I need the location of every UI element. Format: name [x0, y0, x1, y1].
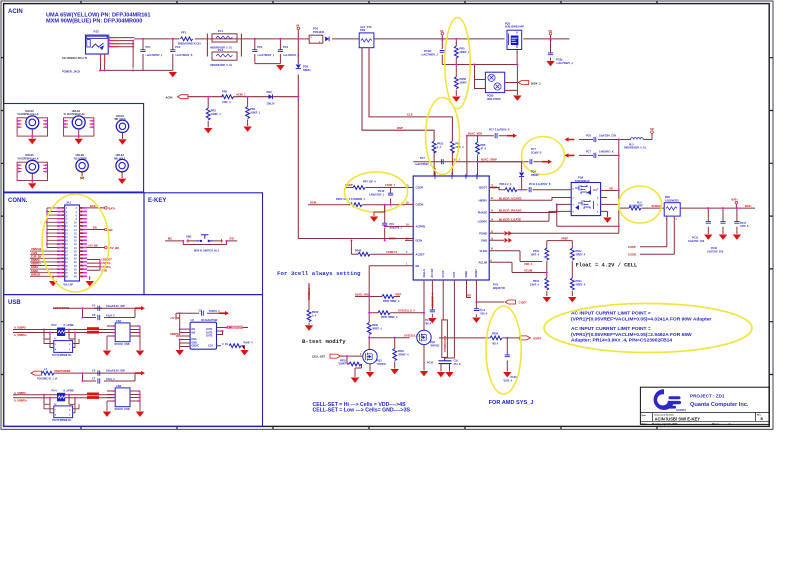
net arrow [135, 306, 145, 310]
resistor box PR9 [359, 25, 374, 48]
svg-text:*H-SCREW-Hole-LK: *H-SCREW-Hole-LK [17, 158, 39, 160]
svg-text:of: of [728, 423, 730, 426]
switch SW1 [168, 235, 234, 253]
svg-text:+5V_BK: +5V_BK [170, 317, 180, 320]
wire VREF rail [547, 241, 573, 249]
svg-text:A_USBP2+: A_USBP2+ [14, 334, 28, 337]
svg-text:STACK_USB: STACK_USB [115, 408, 130, 411]
net arrow [135, 371, 145, 375]
svg-text:CUR_SK: CUR_SK [31, 255, 41, 258]
capacitor PC2 [170, 39, 193, 71]
svg-text:VLDO: VLDO [480, 249, 487, 253]
IC power switch U3 [176, 318, 248, 349]
ground [704, 235, 712, 240]
svg-text:PHASE: PHASE [478, 211, 487, 215]
capacitor PC16 [720, 208, 725, 234]
ground [543, 297, 551, 302]
svg-text:470P_S: 470P_S [740, 225, 749, 228]
svg-text:47_4: 47_4 [481, 147, 487, 150]
svg-text:EN: EN [416, 264, 420, 268]
connector outer pin digits [57, 208, 84, 278]
battery connector section [30, 194, 119, 292]
svg-text:2_4: 2_4 [437, 146, 442, 149]
wire jack pins [108, 38, 118, 47]
svg-text:IOVRT: IOVRT [533, 337, 542, 341]
svg-text:VR: VR [548, 29, 552, 33]
e-key switch section [165, 235, 237, 253]
USB section box [4, 295, 263, 427]
common mode filter U? [44, 338, 79, 357]
ground [305, 325, 313, 330]
resistor PR20 3cell [307, 283, 319, 325]
svg-text:BLKCR_LGATE: BLKCR_LGATE [499, 218, 521, 222]
resistor PR3 [206, 97, 221, 128]
resistor PR11 [530, 248, 548, 278]
wire OSP [362, 48, 434, 141]
wire CSOP sense down [640, 216, 674, 254]
sheet inner border [4, 4, 770, 427]
svg-text:*88_4: *88_4 [492, 342, 499, 345]
svg-text:CSON: CSON [416, 203, 424, 207]
svg-text:OC/GACPSW: OC/GACPSW [201, 318, 218, 322]
svg-text:STACK_USB: STACK_USB [115, 343, 130, 346]
ground [719, 235, 727, 240]
svg-text:VCCP: VCCP [442, 270, 445, 277]
node +5V_BK [88, 243, 119, 250]
port ACIN [178, 95, 189, 99]
svg-text:FDS6986AS: FDS6986AS [575, 179, 590, 183]
wire conn right nets [87, 208, 105, 280]
svg-text:*8REF_4: *8REF_4 [576, 283, 586, 286]
svg-text:VREF: VREF [465, 270, 468, 277]
wire cells row [369, 337, 489, 339]
EN 3cell network row1 [355, 293, 402, 303]
capacitor PC4 [255, 39, 300, 64]
wire VA vertical [298, 30, 413, 239]
resistor PR31 [338, 355, 362, 368]
ground [472, 318, 480, 323]
svg-text:200KF_J: 200KF_J [460, 51, 471, 54]
wire battery out [680, 204, 755, 208]
svg-text:47uH_4: 47uH_4 [106, 378, 115, 381]
EN branch [369, 266, 405, 297]
svg-text:VA: VA [440, 29, 444, 33]
svg-text:PD1: PD1 [313, 27, 319, 31]
svg-text:10uF/25V_C06: 10uF/25V_C06 [688, 240, 705, 243]
resistor PR5 divider top [454, 39, 470, 58]
svg-text:C2: C2 [199, 309, 203, 313]
svg-text:ACDR_2: ACDR_2 [490, 187, 501, 190]
inductor PL3 [624, 134, 652, 150]
USB section [13, 304, 253, 423]
BOOT row [490, 183, 571, 192]
svg-text:C-DET: C-DET [519, 301, 528, 305]
ground [136, 351, 144, 356]
svg-text:PD3: PD3 [267, 90, 273, 94]
svg-text:U: U [55, 403, 57, 406]
capacitor PC103 [421, 50, 445, 65]
ACIN power entry chain [62, 18, 573, 239]
net arrow [542, 160, 552, 164]
svg-text:47uH_4: 47uH_4 [106, 314, 115, 317]
svg-text:HIDRV: HIDRV [479, 198, 488, 202]
svg-text:10KF_4: 10KF_4 [530, 253, 539, 256]
svg-text:B-test modify: B-test modify [302, 338, 346, 345]
diode PD3 [267, 90, 275, 106]
svg-text:10KF_4: 10KF_4 [222, 101, 231, 104]
svg-text:HOLE1: HOLE1 [116, 115, 125, 118]
ACLIM net wire [497, 262, 547, 272]
svg-text:PU2: PU2 [52, 323, 58, 327]
ground [243, 127, 251, 132]
svg-text:PC18: PC18 [427, 362, 434, 365]
svg-text:PC4: PC4 [283, 45, 289, 49]
svg-text:ACIN /USB/ SW/ E-KEY: ACIN /USB/ SW/ E-KEY [655, 416, 701, 421]
power jack PJ2 [62, 30, 108, 74]
svg-text:USBP2-: USBP2- [31, 259, 40, 262]
svg-text:*8REF_4: *8REF_4 [372, 327, 382, 330]
border tick marks [1, 1, 773, 429]
svg-text:Sheet: Sheet [712, 423, 719, 426]
resistor PR13 [530, 278, 549, 296]
svg-text:8_uPDB: 8_uPDB [64, 388, 74, 392]
svg-text:OUT3: OUT3 [206, 335, 213, 338]
svg-text:PC3: PC3 [257, 45, 263, 49]
svg-text:0.02/2W3Z0: 0.02/2W3Z0 [665, 199, 679, 202]
svg-text:ACDET 2: ACDET 2 [386, 250, 398, 254]
svg-text:H6S0RB-B2R_0_GL: H6S0RB-B2R_0_GL [624, 147, 647, 150]
battery output chain [565, 127, 756, 256]
port usb2 in [31, 371, 42, 375]
svg-text:DCIN: DCIN [416, 239, 423, 243]
svg-text:DCIN: DCIN [389, 236, 396, 240]
svg-text:Monday, April 24, 2006: Monday, April 24, 2006 [652, 423, 678, 426]
svg-text:GND1: GND1 [31, 266, 39, 269]
svg-text:/.uAC7W02V_S: /.uAC7W02V_S [175, 54, 192, 57]
label A_USBPORT [227, 326, 243, 329]
resistor PR33 [393, 337, 409, 369]
svg-text:MS4-N_SWITCH_HL2: MS4-N_SWITCH_HL2 [194, 250, 220, 253]
port C-DET [505, 300, 527, 305]
svg-text:HOLE3: HOLE3 [25, 110, 34, 113]
svg-text:BAT+: BAT+ [109, 207, 117, 211]
svg-text:U: U [55, 338, 57, 341]
svg-text:CONN.: CONN. [8, 198, 28, 204]
svg-text:EN: EN [93, 225, 97, 229]
inductor PL4 [619, 201, 664, 210]
svg-text:TEYCFM5688 CIL: TEYCFM5688 CIL [52, 419, 72, 422]
svg-text:GND/C: GND/C [192, 345, 200, 348]
IC left pin labels [416, 186, 426, 268]
svg-text:SW1: SW1 [186, 235, 192, 239]
diode PD4 [519, 162, 539, 190]
svg-text:*100_4: *100_4 [480, 312, 488, 315]
IC bottom pin labels rotated [423, 268, 478, 277]
svg-text:SYSCELLS_4: SYSCELLS_4 [308, 284, 311, 300]
net arrow [507, 134, 517, 138]
svg-text:SHIELD: SHIELD [31, 273, 40, 276]
svg-text:ACSET: ACSET [416, 252, 425, 256]
svg-text:BLKC_USBP: BLKC_USBP [481, 158, 497, 162]
ground [276, 65, 284, 70]
svg-text:PR2: PR2 [222, 90, 228, 94]
choke PU2 [52, 323, 74, 336]
svg-text:GND: GND [481, 239, 487, 243]
svg-text:CSON: CSON [628, 252, 636, 256]
hole H6 plain no-connect [74, 154, 88, 179]
svg-text:PR7 10F_4: PR7 10F_4 [363, 181, 376, 184]
svg-text:CELLS: CELLS [423, 269, 426, 278]
svg-text:AC INPUT CURRNT LIMIT POINT =: AC INPUT CURRNT LIMIT POINT = [571, 311, 651, 317]
svg-text:VB: VB [650, 127, 654, 131]
svg-text:Date:: Date: [642, 423, 648, 426]
svg-text:MS: MS [168, 237, 172, 241]
svg-text:*REF: *REF [395, 293, 402, 297]
resistor C_R1 [222, 342, 253, 350]
svg-text:MXM 90W(BLUE) PN: DFPJ04MR000: MXM 90W(BLUE) PN: DFPJ04MR000 [46, 19, 142, 25]
capacitor PC12 [415, 157, 443, 166]
svg-text:0.66/26V?_K: 0.66/26V?_K [599, 151, 614, 154]
mounting holes section [17, 110, 129, 189]
svg-text:0_4: 0_4 [312, 314, 317, 317]
resistor PR7 [353, 186, 365, 190]
svg-text:Size: Size [642, 415, 647, 417]
svg-text:CN2: CN2 [116, 384, 122, 388]
ground [366, 372, 374, 377]
svg-text:RB060: RB060 [303, 69, 311, 72]
net highlight labels [87, 327, 99, 330]
resistor PR56 divider bottom [454, 58, 470, 96]
top pin networks [413, 98, 564, 177]
wire usb2 power rail [42, 373, 142, 381]
highlight ellipse sense [345, 172, 408, 212]
ground wire PR31 [355, 368, 362, 377]
svg-text:VA: VA [296, 24, 300, 28]
vertical resistor box VCCP [442, 288, 448, 357]
labels conn right lower nets [102, 259, 113, 273]
wire usb2 data [13, 395, 113, 405]
capacitor C2 [199, 309, 221, 316]
svg-text:SCRLN: SCRLN [652, 204, 661, 208]
ground [513, 96, 521, 101]
svg-text:A_USBP3+: A_USBP3+ [14, 399, 28, 402]
svg-text:ACCAP: ACCAP [431, 268, 434, 277]
wire PQ4 right [601, 191, 619, 218]
ground [452, 97, 460, 102]
wire divider tap [442, 64, 517, 66]
REF branch [466, 288, 504, 317]
ground [391, 369, 399, 374]
svg-text:PR8 2.2_4: PR8 2.2_4 [500, 183, 512, 186]
ground [546, 61, 554, 66]
svg-text:2Cu8V_S: 2Cu8V_S [531, 151, 542, 154]
node BAT+ [732, 198, 753, 208]
svg-text:PU4: PU4 [52, 388, 58, 392]
title block [640, 387, 769, 426]
svg-text:/.uAC7W02V_J: /.uAC7W02V_J [556, 62, 573, 65]
svg-text:CSOP_1: CSOP_1 [385, 183, 396, 187]
wire acin row [188, 96, 299, 98]
svg-text:8_uPDB: 8_uPDB [64, 323, 74, 327]
sheet outer border [1, 1, 773, 429]
svg-text:PR9: PR9 [360, 28, 366, 32]
vref divider cluster [497, 236, 586, 302]
svg-text:RB060: RB060 [531, 174, 539, 177]
svg-text:100KF_4: 100KF_4 [211, 113, 222, 116]
svg-text:LODRV: LODRV [478, 220, 488, 224]
svg-text:BQ24745: BQ24745 [493, 286, 505, 290]
svg-text:19C.2D5600-L4PLA *R: 19C.2D5600-L4PLA *R [62, 57, 87, 60]
wire ekey left [165, 240, 237, 242]
ground [136, 412, 144, 417]
svg-text:FOR AMD SYS_J: FOR AMD SYS_J [489, 400, 534, 406]
svg-text:SYSCELLS 2_2: SYSCELLS 2_2 [404, 334, 423, 338]
svg-text:10uF/25V_C06: 10uF/25V_C06 [707, 251, 724, 254]
svg-text:REF: REF [466, 294, 472, 298]
svg-text:BLANK-REF: BLANK-REF [629, 205, 643, 208]
svg-text:GND2: GND2 [31, 270, 39, 273]
Quanta logo [654, 389, 687, 412]
port IOVRT [520, 336, 531, 340]
svg-text:POWER_JACK: POWER_JACK [62, 70, 80, 74]
fuse PF1 [178, 31, 201, 46]
svg-text:USBPOE: USBPOE [170, 333, 181, 336]
wire usb1 power rail [53, 308, 141, 317]
sheet frame [1, 1, 773, 429]
highlight ellipse FOR AMD [486, 306, 521, 394]
hole H2 plain [114, 154, 128, 184]
svg-text:QUANTA: QUANTA [676, 409, 686, 412]
svg-text:ACIN: ACIN [8, 9, 23, 15]
svg-text:*H-CUSTOM-HP-2H: *H-CUSTOM-HP-2H [64, 114, 85, 116]
svg-text:JA1: JA1 [66, 201, 72, 205]
wire VR_1 row [413, 162, 521, 176]
junctions output [707, 207, 738, 209]
svg-text:MB_HOLE: MB_HOLE [114, 158, 126, 160]
ground [103, 351, 111, 356]
highlight ellipse usbp cap [522, 137, 565, 175]
svg-text:10uF/25V_C06: 10uF/25V_C06 [599, 135, 617, 138]
svg-text:VREF: VREF [561, 236, 569, 240]
svg-text:*200KF_4: *200KF_4 [398, 353, 409, 356]
resistor PR29 [490, 336, 502, 340]
USB circuit 1 [13, 304, 145, 357]
svg-text:E/D: E/D [230, 237, 234, 241]
wire PQ4 bottom rail [505, 140, 619, 234]
port CELL-SET [312, 354, 363, 359]
svg-text:&&&3V&_J: &&&3V&_J [390, 226, 403, 229]
node BAT+ [90, 204, 116, 211]
resistor PR23 [476, 136, 487, 162]
PHASE row [497, 204, 571, 212]
ground [49, 281, 57, 286]
ACIN input row [166, 90, 300, 134]
svg-text:BLKCR_UGATE: BLKCR_UGATE [499, 196, 521, 200]
junctions usb1 [43, 307, 84, 333]
charger IC cluster [305, 98, 565, 331]
svg-text:*100KF_4: *100KF_4 [338, 363, 349, 366]
svg-text:USBCH4: USBCH4 [31, 248, 42, 251]
svg-text:VDD_4: VDD_4 [524, 262, 533, 266]
LODRV row [497, 203, 571, 221]
svg-text:CELL-SET = Low ---> Cells= GND: CELL-SET = Low ---> Cells= GND---->3S [313, 408, 411, 414]
node VA [296, 24, 300, 30]
svg-text:ACIN: ACIN [166, 95, 173, 99]
resistor PR4 [246, 97, 261, 126]
diode PD1 with body box [309, 27, 329, 44]
IC CN1 [107, 319, 140, 350]
resistor PR8 [505, 188, 517, 192]
wire OSP pin [433, 151, 436, 176]
junctions top [466, 135, 523, 163]
capacitor PC17 [734, 208, 739, 234]
svg-text:A_USBPORT: A_USBPORT [228, 326, 244, 329]
wires isolation box [475, 50, 519, 96]
svg-text:CSOP: CSOP [628, 245, 636, 249]
svg-text:HOLE2: HOLE2 [116, 154, 125, 157]
hole H3 with pad box [17, 110, 47, 144]
capacitor PC20 [506, 338, 508, 355]
svg-text:VB: VB [609, 186, 613, 190]
svg-text:H6S0RB-B2R_0_GL: H6S0RB-B2R_0_GL [210, 64, 233, 67]
svg-text:SYSNOCAP_4: SYSNOCAP_4 [444, 335, 447, 352]
wire CLS [369, 48, 452, 141]
svg-text:C6: C6 [92, 313, 96, 317]
inductor L4 [37, 367, 58, 381]
IC bottom pin stubs [424, 280, 476, 288]
ground [503, 372, 511, 377]
capacitor PC11 [529, 187, 531, 192]
junctions usb2 [43, 372, 84, 399]
no-connect arrows PGND GND [505, 231, 512, 236]
svg-text:*2N7002: *2N7002 [430, 344, 440, 347]
svg-text:*2N7002: *2N7002 [377, 363, 387, 366]
svg-text:EN: EN [109, 228, 113, 232]
svg-text:PC6: PC6 [586, 135, 591, 138]
highlight ellipse top divider [445, 18, 471, 109]
svg-text:C_R1: C_R1 [222, 343, 229, 346]
capacitor PC8a [548, 40, 574, 65]
connector pin numbers [65, 207, 78, 278]
ground [603, 218, 611, 223]
EN 3cell network row2 [368, 297, 425, 331]
transistor Q2 PQ3 [363, 337, 387, 372]
svg-text:ACNOCAP_4: ACNOCAP_4 [432, 293, 435, 308]
resistor PR14 [570, 278, 585, 296]
svg-text:C5: C5 [92, 368, 96, 372]
svg-text:PR6V 10F_4 0.05R/MS_J: PR6V 10F_4 0.05R/MS_J [336, 198, 366, 201]
svg-text:PDS1040: PDS1040 [313, 30, 325, 34]
svg-text:USBP2+: USBP2+ [31, 263, 41, 266]
svg-text:HOLE6: HOLE6 [76, 154, 85, 157]
hole H5 with pad box [17, 154, 47, 188]
node VR [548, 29, 552, 40]
capacitor PC7 row [565, 151, 620, 158]
ground [437, 372, 445, 377]
highlight ellipse conn [42, 194, 109, 292]
svg-text:DCIN: DCIN [310, 201, 316, 205]
capacitor PC6 row [565, 135, 631, 143]
svg-text:*H-SCREW-Hole-LK: *H-SCREW-Hole-LK [17, 114, 39, 116]
resistor PR32 [367, 323, 382, 338]
resistor PR21 [432, 141, 444, 153]
USB power switch circuit [170, 309, 253, 356]
svg-text:MB_HOLE: MB_HOLE [115, 119, 127, 121]
resistor PR2 [222, 90, 234, 105]
FOR AMD network [490, 333, 542, 383]
IC top pin labels rotated [434, 172, 479, 179]
svg-text:A_USBP3-: A_USBP3- [14, 392, 27, 395]
